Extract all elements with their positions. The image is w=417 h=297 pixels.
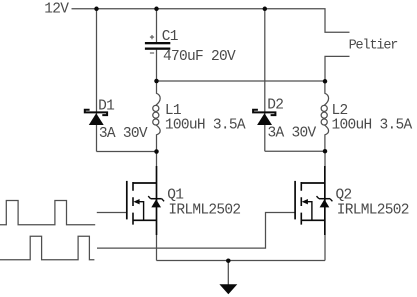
svg-text:3A 30V: 3A 30V	[268, 126, 317, 142]
svg-text:3A 30V: 3A 30V	[99, 126, 148, 142]
svg-text:C1: C1	[162, 29, 178, 45]
svg-text:IRLML2502: IRLML2502	[168, 203, 240, 219]
svg-text:100uH 3.5A: 100uH 3.5A	[332, 117, 413, 133]
svg-text:Q2: Q2	[336, 188, 352, 204]
svg-text:470uF 20V: 470uF 20V	[163, 49, 236, 65]
svg-text:D1: D1	[98, 98, 114, 114]
svg-text:12V: 12V	[44, 1, 69, 17]
svg-text:IRLML2502: IRLML2502	[337, 203, 409, 219]
svg-text:Peltier: Peltier	[349, 38, 398, 53]
svg-text:100uH 3.5A: 100uH 3.5A	[165, 117, 246, 133]
svg-text:Q1: Q1	[167, 187, 183, 203]
svg-text:D2: D2	[267, 98, 283, 114]
